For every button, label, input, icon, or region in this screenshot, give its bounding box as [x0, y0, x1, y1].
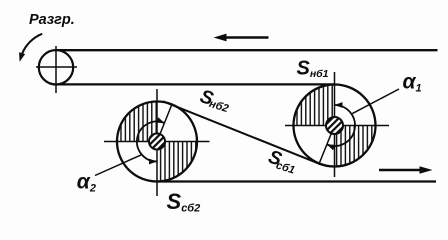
leader line alpha2 [95, 154, 143, 175]
alpha2 arc arrowhead lower [149, 159, 157, 165]
drum 1 horizontal centerline [285, 125, 389, 127]
belt top run [55, 49, 438, 51]
drum 2 hatch upper-left [117, 102, 157, 142]
unload pulley horizontal centerline [36, 66, 77, 68]
drum 1 shaft [326, 117, 343, 134]
leader line alpha1 [352, 89, 399, 114]
unload pulley vertical centerline [55, 46, 57, 93]
belt cross run (tangent line between drums) [163, 101, 320, 164]
drum 2 radius to run-on tangent point [157, 104, 172, 141]
drum 2 horizontal centerline [104, 141, 210, 143]
drum 2 shaft [149, 134, 165, 150]
alpha1 arc arrowhead lower [327, 145, 336, 151]
drum 1 hatch lower-right [335, 126, 376, 167]
drum 2 vertical centerline [156, 89, 158, 196]
drum 1 hatch upper-left [294, 85, 335, 126]
alpha2 arc arrowhead upper [156, 117, 165, 123]
drum 1 radius to run-off tangent point [319, 126, 334, 164]
drum 2 hatch lower-right [157, 142, 197, 182]
unload pulley [39, 50, 73, 84]
svg-text:Разгр.: Разгр. [29, 12, 75, 28]
belt direction arrow upper (leftward) [224, 36, 269, 39]
wrap angle arc alpha1 [327, 105, 355, 146]
unload pulley rotation arrow [22, 34, 42, 54]
belt return run [56, 83, 335, 85]
drum 1 body [294, 85, 376, 167]
drum 1 vertical centerline [334, 72, 336, 177]
drum 2 body [117, 102, 197, 182]
wrap angle arc alpha2 [137, 122, 165, 162]
belt lower run [157, 180, 436, 182]
alpha1 arc arrowhead top [335, 102, 343, 108]
belt direction arrow lower (rightward) [379, 169, 421, 172]
